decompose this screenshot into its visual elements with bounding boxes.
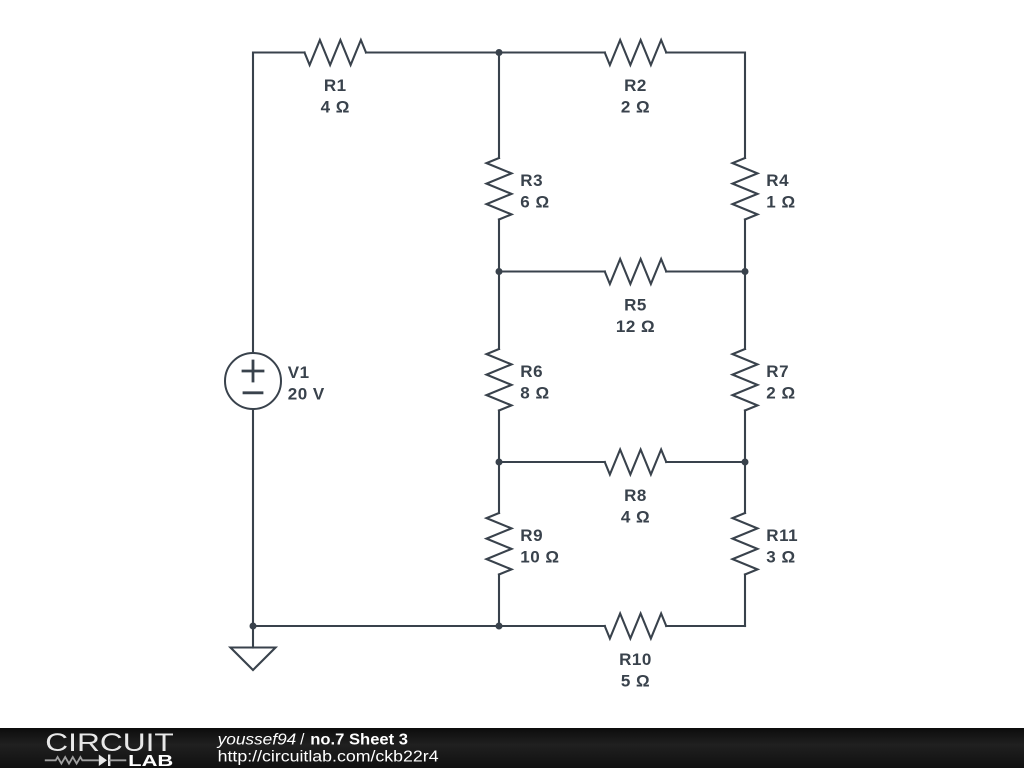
svg-text:http://circuitlab.com/ckb22r4: http://circuitlab.com/ckb22r4 [218,749,439,766]
svg-text:1 Ω: 1 Ω [766,193,795,212]
svg-text:no.7 Sheet 3: no.7 Sheet 3 [310,732,408,749]
svg-text:2 Ω: 2 Ω [621,98,650,117]
svg-text:2 Ω: 2 Ω [766,384,795,403]
wire R2 to top-right corner down to R4 [666,53,745,159]
wire R1 to node A [366,51,499,53]
svg-text:R5: R5 [624,296,647,315]
junction node E [742,459,749,466]
V1 plus sign [243,361,263,381]
resistor R6 [487,349,512,411]
wire node C down to R7 [744,272,746,350]
svg-text:6 Ω: 6 Ω [520,193,549,212]
V1 minus sign [244,391,262,394]
logo diode [99,755,107,767]
wire node A to R2 [499,51,605,53]
svg-text:R6: R6 [520,362,543,381]
ground stem [252,626,254,648]
svg-text:R3: R3 [520,171,543,190]
wire R6 to node D [498,411,500,463]
wire R3 to node B [498,220,500,272]
wire node E down to R11 [744,462,746,513]
wire top-left from V1 top to R1 [253,53,305,354]
svg-text:5 Ω: 5 Ω [621,672,650,691]
resistor R5 [605,259,667,284]
junction node B [496,268,503,275]
voltage source V1 [225,353,281,409]
wire bottom rail node G to R10 [253,625,605,627]
svg-text:4 Ω: 4 Ω [321,98,350,117]
svg-text:R7: R7 [766,362,789,381]
svg-text:20 V: 20 V [288,384,325,403]
wire R11 to bottom-right corner [744,575,746,627]
wire R9 to bottom node F [498,575,500,627]
junction node D [496,459,503,466]
svg-text:4 Ω: 4 Ω [621,508,650,527]
resistor R2 [605,40,667,65]
resistor R3 [487,158,512,220]
ground symbol [231,648,276,671]
wire node A down to R3 [498,53,500,159]
resistor R10 [605,614,667,639]
svg-text:LAB: LAB [128,753,173,768]
junction node G [250,623,257,630]
svg-text:R2: R2 [624,76,647,95]
svg-text:3 Ω: 3 Ω [766,548,795,567]
resistor R9 [487,513,512,575]
junction node C [742,268,749,275]
junction node A [496,49,503,56]
wire R8 to node E [666,461,745,463]
wire R5 to node C [666,270,745,272]
svg-text:10 Ω: 10 Ω [520,548,559,567]
svg-text:8 Ω: 8 Ω [520,384,549,403]
svg-text:youssef94: youssef94 [216,732,296,749]
svg-text:R11: R11 [766,526,798,545]
wire node B down to R6 [498,272,500,350]
svg-text:R1: R1 [324,76,347,95]
wire V1 bottom to ground node G [252,409,254,626]
logo resistor zigzag [45,757,99,764]
resistor R8 [605,450,667,475]
wire node D down to R9 [498,462,500,513]
resistor R1 [305,40,367,65]
svg-text:R10: R10 [619,650,652,669]
junction node F [496,623,503,630]
svg-text:V1: V1 [288,363,310,382]
wire R10 to bottom-right corner [666,625,745,627]
footer bar [0,728,1024,768]
svg-text:12 Ω: 12 Ω [616,317,655,336]
wire R7 to node E [744,411,746,463]
wire node B to R5 [499,270,605,272]
wire node D to R8 [499,461,605,463]
resistor R4 [733,158,758,220]
svg-text:R4: R4 [766,171,789,190]
resistor R7 [733,349,758,411]
wire R4 to node C [744,220,746,272]
svg-text:/: / [300,732,305,749]
svg-text:R8: R8 [624,486,647,505]
resistor R11 [733,513,758,575]
svg-text:R9: R9 [520,526,543,545]
